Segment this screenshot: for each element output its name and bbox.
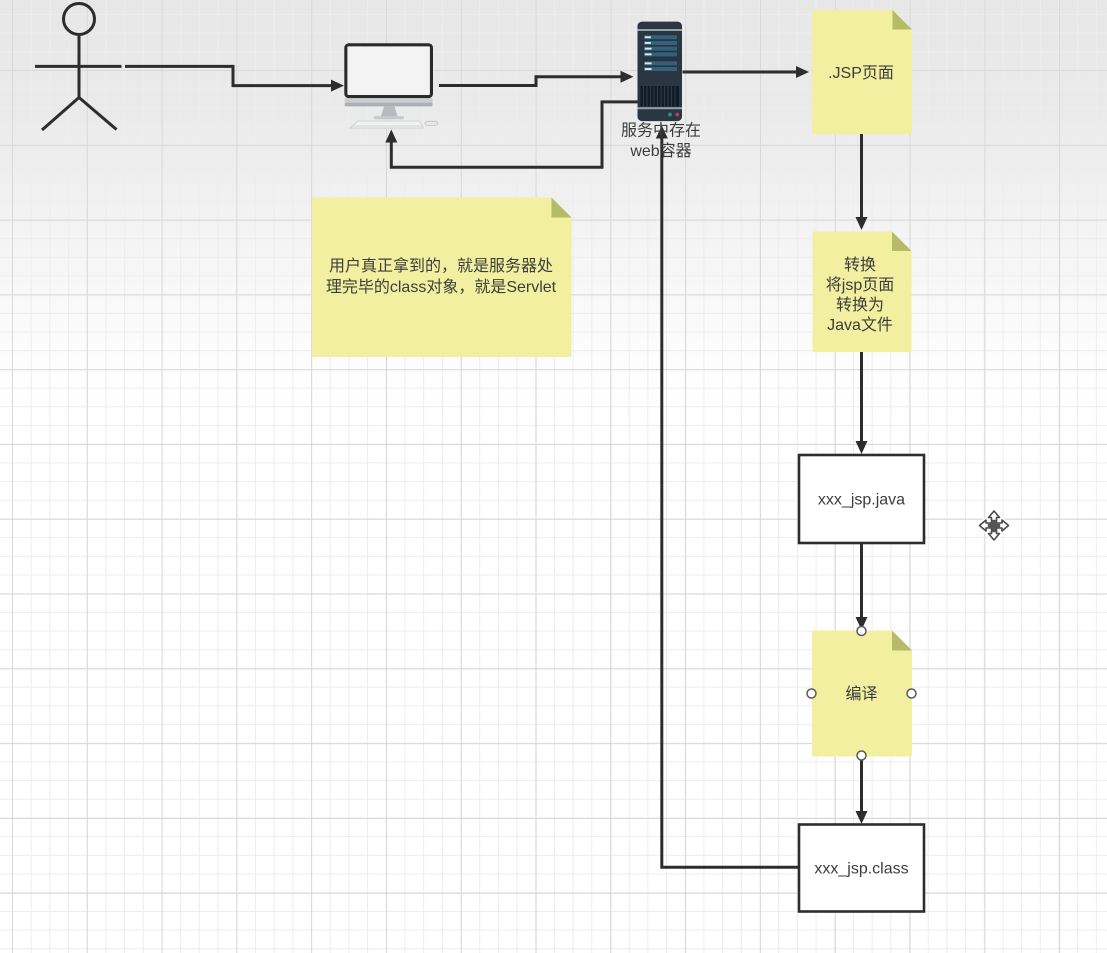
svg-text:转换为: 转换为 xyxy=(836,296,884,314)
svg-text:.JSP页面: .JSP页面 xyxy=(828,65,894,82)
svg-text:编译: 编译 xyxy=(845,685,877,703)
svg-text:xxx_jsp.class: xxx_jsp.class xyxy=(814,861,908,878)
svg-text:将jsp页面: 将jsp页面 xyxy=(826,276,894,294)
svg-text:web容器: web容器 xyxy=(629,142,691,160)
svg-text:Java文件: Java文件 xyxy=(827,316,893,334)
svg-text:xxx_jsp.java: xxx_jsp.java xyxy=(818,492,905,509)
svg-text:用户真正拿到的，就是服务器处: 用户真正拿到的，就是服务器处 xyxy=(329,256,553,275)
svg-text:理完毕的class对象，就是Servlet: 理完毕的class对象，就是Servlet xyxy=(326,278,557,296)
svg-text:转换: 转换 xyxy=(844,256,876,274)
svg-text:服务中存在: 服务中存在 xyxy=(621,122,701,140)
